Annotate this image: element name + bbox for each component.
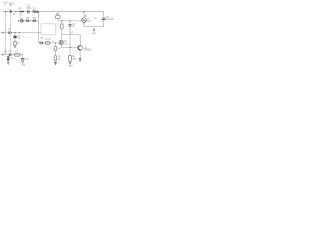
junction node on motor rail — [55, 42, 56, 43]
battery B1 — [10, 10, 16, 16]
junction node — [14, 32, 15, 33]
wire below transistor — [79, 50, 81, 58]
resistor R1 — [19, 11, 24, 16]
wire branch F1 — [14, 33, 16, 36]
svg-text:12V: 12V — [64, 43, 68, 45]
inner bus wire — [9, 13, 11, 53]
transistor Q1 labels — [84, 48, 92, 52]
wire below R3 — [61, 29, 63, 40]
wire left input stub — [1, 32, 41, 34]
diode D3 — [40, 42, 43, 45]
junction node — [38, 11, 39, 12]
terminal tick — [2, 32, 4, 34]
ground stub below R7 — [14, 45, 16, 47]
junction node — [61, 20, 62, 21]
wire lower rail — [61, 47, 77, 49]
inductor L1 — [45, 42, 50, 45]
source V1 — [82, 18, 87, 23]
wire motor row — [38, 42, 59, 44]
ground GND2 — [79, 59, 82, 61]
resistor R7 — [14, 42, 16, 46]
capacitor C7 — [102, 18, 106, 20]
capacitor C6 — [21, 58, 24, 60]
resistor R4 — [54, 47, 57, 51]
resistor R2 — [56, 15, 60, 18]
svg-text:100n: 100n — [26, 8, 32, 10]
chassis box U1 — [41, 24, 56, 35]
ground GND5 — [7, 61, 9, 65]
resistor R6 labels — [72, 57, 76, 61]
wire bottom-right rail — [84, 26, 104, 28]
diode D5 — [27, 20, 29, 22]
capacitor C1 labels — [26, 5, 32, 10]
capacitor C5 — [9, 53, 11, 56]
ground GND1 — [92, 27, 96, 36]
junction node at source branch — [83, 11, 84, 12]
junction node — [69, 20, 70, 21]
wire mid horizontal to transistor — [62, 35, 80, 46]
capacitor C4 — [69, 25, 72, 27]
capacitor C4 labels — [72, 24, 76, 28]
wire between R4 R5 — [54, 51, 56, 56]
diode D2 — [9, 31, 12, 34]
wire mid rail — [58, 20, 82, 22]
left diode row wire — [19, 20, 39, 22]
terminal tick — [19, 32, 21, 34]
capacitor C7 labels — [106, 17, 114, 21]
wire branch R6 — [69, 48, 71, 56]
diode D1 — [33, 10, 38, 13]
wire below source — [83, 22, 85, 26]
resistor R6 — [69, 55, 72, 61]
terminal tick — [2, 54, 4, 56]
wire right corner down — [103, 12, 105, 18]
wire below R5 — [54, 61, 56, 63]
motor M1 — [59, 40, 63, 44]
junction node — [15, 11, 16, 12]
relay K1 body — [15, 54, 20, 57]
source V1 polarity mark — [85, 15, 86, 16]
ground GND4 — [54, 63, 57, 65]
wire between F1 R7 — [14, 38, 16, 41]
node VIN label — [3, 2, 8, 6]
fuse F1 (dark body) — [13, 36, 16, 39]
wire corner to C6 — [20, 55, 23, 59]
source V1 labels — [87, 18, 93, 22]
diode D6 — [33, 20, 35, 22]
fuse F1 label — [18, 36, 21, 40]
vertical feed wire — [38, 12, 40, 43]
diode D3 labels — [40, 38, 44, 40]
node stub tick — [4, 11, 6, 13]
wire branch C4 — [69, 21, 71, 24]
wire branch R3 — [61, 21, 63, 24]
terminal tick — [18, 20, 20, 22]
resistor R5 labels — [58, 57, 62, 61]
svg-text:out: out — [94, 16, 97, 19]
diode D4 — [20, 19, 23, 22]
wire stub below R2 — [57, 19, 59, 21]
motor M1 labels — [64, 41, 68, 45]
ground GND3 triangle — [69, 62, 71, 64]
wire branch R4 — [54, 43, 56, 47]
ground GND6 triangle — [21, 60, 26, 66]
svg-text:AC 1: AC 1 — [87, 20, 93, 23]
wire below C4 — [69, 26, 71, 47]
bottom rail wire — [1, 54, 23, 56]
resistor R5 — [54, 56, 57, 61]
junction node — [70, 47, 71, 48]
wire below R6 — [69, 60, 71, 63]
wire top rail — [3, 11, 104, 13]
left bus wire — [4, 12, 6, 55]
transistor Q1 — [78, 45, 83, 50]
wire below C7 — [103, 20, 105, 27]
svg-text:2N2222: 2N2222 — [84, 50, 92, 52]
source V1 branch wire — [83, 12, 85, 18]
battery B2 — [7, 55, 13, 61]
svg-text:10u 16V: 10u 16V — [106, 19, 114, 21]
svg-text:L1 1m: L1 1m — [45, 39, 51, 41]
wire stub to R2 — [57, 12, 59, 16]
resistor R3 — [61, 24, 64, 29]
wire below motor — [60, 45, 62, 48]
capacitor C1 — [28, 10, 29, 13]
